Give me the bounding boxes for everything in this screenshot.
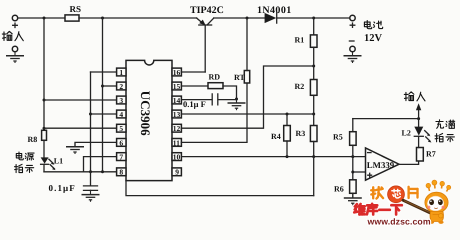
- resistor R6: [350, 180, 357, 198]
- node C (247,18): [246, 17, 249, 20]
- pin 7: [117, 153, 126, 162]
- wire pin11 to RT: [181, 83, 247, 142]
- resistor R2: [310, 80, 317, 126]
- label 电池: [364, 21, 382, 29]
- pin 14: [172, 96, 181, 105]
- svg-text:R5: R5: [333, 133, 343, 142]
- wire pin16 to base: [181, 71, 205, 73]
- wm char 找: [371, 187, 383, 198]
- svg-text:3: 3: [119, 96, 123, 105]
- svg-text:14: 14: [173, 96, 181, 105]
- pin 9: [172, 168, 181, 177]
- svg-text:16: 16: [173, 68, 181, 77]
- svg-text:RD: RD: [209, 73, 221, 82]
- svg-text:R7: R7: [426, 150, 436, 159]
- svg-text:12: 12: [173, 124, 181, 133]
- wire RS to transistor: [79, 17, 197, 19]
- LED L1: [41, 157, 56, 170]
- pin 3: [117, 96, 126, 105]
- resistor R5: [350, 119, 357, 180]
- pin 1: [117, 68, 126, 77]
- input - terminal: [12, 46, 17, 51]
- diode 1N4001: [265, 13, 277, 23]
- pin 15: [172, 82, 181, 91]
- label 充满: [436, 120, 455, 129]
- svg-text:L2: L2: [402, 128, 411, 137]
- svg-text:www.dzsc.com: www.dzsc.com: [367, 216, 431, 226]
- pin 13: [172, 110, 181, 119]
- wire vertical x=90.5 pins 1-4: [90, 72, 92, 172]
- svg-text:0.1μ F: 0.1μ F: [183, 99, 206, 109]
- svg-text:10: 10: [173, 153, 181, 162]
- wire top rail left: [18, 17, 65, 19]
- svg-text:0.1μF: 0.1μF: [49, 183, 76, 193]
- node R4 top (287,114): [286, 113, 289, 116]
- pin 10: [172, 153, 181, 162]
- transistor TIP42C: [197, 18, 214, 25]
- wire pin1: [91, 71, 117, 73]
- input arrow (right): [416, 103, 421, 118]
- pin 16: [172, 68, 181, 77]
- svg-text:R3: R3: [296, 129, 306, 138]
- watermark dzsc logo: [354, 180, 451, 226]
- node (313.7,156.6): [312, 155, 315, 158]
- label 电源: [16, 152, 34, 160]
- svg-text:TIP42C: TIP42C: [190, 5, 224, 16]
- op-amp LM339: [366, 148, 400, 180]
- wire plus input: [353, 171, 366, 173]
- svg-text:R6: R6: [334, 185, 344, 194]
- wire pin6 to ground: [75, 142, 117, 146]
- ground (pin6): [66, 143, 84, 154]
- wire pin2: [103, 85, 117, 87]
- resistor RS: [65, 15, 79, 21]
- svg-text:RT: RT: [234, 73, 245, 82]
- wire transistor base: [204, 26, 206, 72]
- pin 6: [117, 138, 126, 147]
- resistor R3: [310, 126, 317, 196]
- pin 8: [117, 168, 126, 177]
- node (102.5,171.8): [101, 170, 104, 173]
- node pin5 (44,128.2): [43, 127, 46, 130]
- wm char 芯: [392, 189, 400, 198]
- wire vertical x=44: [43, 18, 45, 130]
- wire RD to ground node: [223, 86, 237, 99]
- wm mascot crown: [426, 180, 451, 191]
- node (313.7,114): [312, 113, 315, 116]
- wire diode to battery: [278, 17, 350, 19]
- LED L2: [414, 127, 431, 143]
- node (287,156.6): [286, 155, 289, 158]
- svg-text:R8: R8: [28, 135, 38, 144]
- svg-text:5: 5: [119, 124, 123, 133]
- svg-text:1N4001: 1N4001: [257, 5, 292, 16]
- wire vertical x=102.5: [102, 18, 104, 172]
- op-amp U1 body UC3906: [126, 60, 172, 180]
- ground (battery): [344, 52, 362, 63]
- wire pin10 to comparator: [181, 156, 365, 158]
- node (352.8,156.6): [351, 155, 354, 158]
- wire pin8 rail y=171.8: [44, 171, 117, 173]
- svg-text:6: 6: [119, 138, 123, 147]
- wm mascot head: [425, 192, 448, 213]
- node pin2 (102.5,86): [101, 85, 104, 88]
- node B (102.5,18): [101, 17, 104, 20]
- svg-text:LM339: LM339: [367, 160, 395, 170]
- ground (capacitor left): [82, 191, 100, 202]
- capacitor 0.1uF (pin14): [212, 94, 218, 105]
- wire bottom return: [126, 181, 314, 196]
- wire RT to top rail: [246, 18, 248, 71]
- svg-text:13: 13: [173, 110, 181, 119]
- ground (RD/cap): [228, 99, 246, 110]
- svg-text:UC3906: UC3906: [138, 91, 153, 136]
- battery - sign: [349, 40, 354, 42]
- wire pin4: [91, 113, 117, 115]
- label 指示 (power): [15, 164, 34, 172]
- svg-text:4: 4: [119, 110, 123, 119]
- node (313.7,66): [312, 65, 315, 68]
- ground (input): [6, 52, 24, 63]
- node A (44,18): [43, 17, 46, 20]
- svg-text:11: 11: [173, 138, 180, 147]
- wm text 维库一下: [354, 204, 402, 215]
- wm red circle: [386, 185, 405, 204]
- svg-text:1: 1: [119, 68, 123, 77]
- resistor R1: [310, 18, 317, 80]
- node (90.5,114): [89, 113, 92, 116]
- wire pin12 riser: [181, 66, 313, 128]
- svg-text:8: 8: [119, 168, 123, 177]
- battery + terminal: [350, 15, 355, 27]
- svg-text:L1: L1: [54, 156, 63, 165]
- pin 12: [172, 124, 181, 133]
- label 输入 (left input): [2, 31, 23, 40]
- node (352.8,172): [351, 171, 354, 174]
- wire pin3: [44, 99, 117, 101]
- capacitor 0.1uF (left): [84, 172, 98, 191]
- wire pin14 to capacitor: [181, 99, 212, 101]
- battery - terminal: [350, 46, 355, 51]
- pin 5: [117, 124, 126, 133]
- label 指示 (charge): [435, 134, 454, 142]
- node D (313.7,18): [312, 17, 315, 20]
- wire capacitor to ground node: [218, 99, 236, 101]
- svg-text:R4: R4: [271, 132, 281, 141]
- wm magnifier handle: [403, 200, 438, 217]
- wire LED to pin8 rail: [43, 165, 45, 172]
- svg-text:R2: R2: [295, 82, 305, 91]
- resistor RT: [244, 71, 249, 84]
- wire LM339 output: [399, 161, 419, 164]
- svg-text:2: 2: [119, 82, 123, 91]
- svg-text:7: 7: [119, 153, 123, 162]
- wire L2 to input arrow node: [418, 119, 420, 127]
- resistor R8: [42, 130, 47, 140]
- svg-text:R1: R1: [295, 36, 305, 45]
- wire R8 to LED: [43, 140, 45, 157]
- svg-text:9: 9: [175, 168, 179, 177]
- wire collector to diode: [214, 17, 265, 19]
- svg-text:15: 15: [173, 82, 181, 91]
- resistor RD: [208, 83, 223, 89]
- wire pin5: [44, 127, 117, 129]
- wm char 片: [409, 187, 418, 198]
- wire pin7: [84, 157, 117, 172]
- node (236.5,99): [235, 98, 238, 101]
- wm mascot body: [429, 212, 444, 224]
- svg-text:RS: RS: [70, 4, 82, 14]
- resistor R7: [417, 148, 424, 162]
- wire R7 to LED L2: [418, 137, 420, 148]
- wire pin13 to R2/R3 node: [181, 113, 313, 115]
- node (418.6,118.6): [417, 117, 420, 120]
- input + terminal: [12, 15, 17, 27]
- ground (R6): [344, 194, 362, 205]
- pin 11: [172, 138, 181, 147]
- node (90.5,171.8): [89, 170, 92, 173]
- resistor R4: [284, 114, 291, 157]
- svg-text:12V: 12V: [364, 33, 383, 44]
- node pin3 (44,100): [43, 99, 46, 102]
- pin 4: [117, 110, 126, 119]
- pin 2: [117, 82, 126, 91]
- wire R5 top rail: [353, 118, 419, 120]
- wire pin15 to RD: [181, 85, 208, 87]
- label 输入 (right): [404, 92, 425, 101]
